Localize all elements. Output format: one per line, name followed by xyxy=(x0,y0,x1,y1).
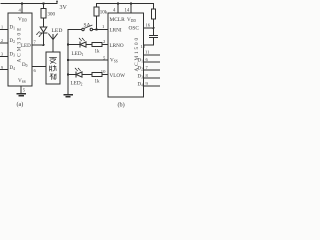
wire R4 to VLOW pin 10 xyxy=(102,74,108,76)
wire top supply rail (b) xyxy=(97,3,154,5)
LED1 xyxy=(68,44,80,46)
wire R3 to LRNO pin 2 xyxy=(102,44,108,46)
node LED2 branch junction xyxy=(67,73,69,75)
svg-text:D4: D4 xyxy=(138,83,144,88)
LED D5 indicator (a) xyxy=(40,27,47,32)
svg-text:VDD: VDD xyxy=(18,17,27,23)
svg-text:D4: D4 xyxy=(10,66,16,71)
wire pin 6 D0 output to transmitter xyxy=(32,66,46,68)
svg-text:LED: LED xyxy=(21,44,31,49)
transmitter box xyxy=(46,52,60,84)
svg-text:2: 2 xyxy=(1,38,3,43)
node LED1 branch junction xyxy=(67,43,69,45)
svg-text:LED1: LED1 xyxy=(72,51,84,57)
svg-text:VDD: VDD xyxy=(127,17,136,23)
node VSS branch junction xyxy=(67,59,69,61)
svg-text:D2: D2 xyxy=(10,39,16,44)
wire pin 11 xyxy=(144,54,161,56)
wire pin D2 (a) xyxy=(0,42,8,44)
svg-text:9: 9 xyxy=(1,65,3,70)
wire LED2 to R4 xyxy=(82,74,92,76)
svg-text:10: 10 xyxy=(101,69,106,74)
svg-text:18: 18 xyxy=(141,44,146,49)
resistor R2 10k xyxy=(96,4,98,8)
wire pin D1 (a) xyxy=(0,29,8,31)
wire VDD drop to IC1 pin 4 xyxy=(21,4,23,14)
svg-text:MCLR: MCLR xyxy=(110,17,126,23)
svg-text:1: 1 xyxy=(102,24,105,29)
svg-text:5: 5 xyxy=(23,88,26,93)
wire pin 5 VSS to ground (a) xyxy=(20,86,22,93)
svg-text:11: 11 xyxy=(145,50,150,55)
svg-text:LRNO: LRNO xyxy=(110,43,124,49)
svg-text:6: 6 xyxy=(146,57,149,62)
svg-text:D2: D2 xyxy=(138,67,144,72)
svg-text:VLOW: VLOW xyxy=(110,73,126,79)
svg-text:7: 7 xyxy=(34,40,37,45)
node rail pin4 junction (b) xyxy=(117,2,119,4)
resistor R3 1k xyxy=(92,42,102,46)
svg-text:2: 2 xyxy=(103,39,106,44)
node rail-R1 junction xyxy=(42,2,44,4)
svg-text:D3: D3 xyxy=(138,75,144,80)
svg-text:6: 6 xyxy=(34,68,37,73)
svg-text:D1: D1 xyxy=(138,59,144,64)
resistor R1 300 xyxy=(43,4,45,9)
svg-text:7: 7 xyxy=(146,65,149,70)
node OSC-RC junction xyxy=(153,27,155,29)
switch SA xyxy=(68,29,82,31)
svg-text:LED2: LED2 xyxy=(71,81,83,87)
wire OSC pin 16 xyxy=(144,27,154,29)
svg-text:1k: 1k xyxy=(95,80,101,85)
resistor R5 osc xyxy=(153,4,155,10)
svg-text:VSS: VSS xyxy=(18,78,26,84)
svg-text:D3: D3 xyxy=(10,53,16,58)
node rail-VDD junction (a) xyxy=(21,2,23,4)
wire MCLR drop pin 4 xyxy=(117,4,119,14)
svg-text:1: 1 xyxy=(1,25,3,30)
svg-text:(a): (a) xyxy=(17,101,24,108)
svg-text:D0: D0 xyxy=(22,63,28,68)
wire pin 18 xyxy=(144,44,154,46)
svg-text:16: 16 xyxy=(146,23,151,28)
svg-text:3: 3 xyxy=(1,52,3,57)
node rail pin14 junction (b) xyxy=(130,2,132,4)
wire pin D4 (a) xyxy=(0,69,8,71)
wire pin 8 D3 (b) xyxy=(144,77,161,79)
node LED stem junction xyxy=(43,44,45,46)
svg-text:8: 8 xyxy=(146,73,149,78)
wire pin 9 D4 (b) xyxy=(144,85,161,87)
svg-text:SA: SA xyxy=(84,23,91,29)
wire left ground rail (b) xyxy=(67,30,69,94)
wire pin 6 D1 (b) xyxy=(144,61,161,63)
svg-text:300: 300 xyxy=(48,13,56,18)
LED2 xyxy=(68,74,76,76)
svg-text:4: 4 xyxy=(19,8,22,13)
node LRNI junction xyxy=(95,28,97,30)
wire pin 7 D2 (b) xyxy=(144,69,161,71)
wire top supply rail (a) xyxy=(1,3,57,5)
wire LED1 to R3 xyxy=(86,44,92,46)
wire LRNI pin 1 xyxy=(93,29,108,31)
wire pin 7 LED output xyxy=(32,44,44,46)
op-amp U2 ACM1500 body xyxy=(108,13,144,97)
svg-text:LED: LED xyxy=(52,28,63,34)
resistor R4 1k xyxy=(92,72,102,76)
svg-text:D1: D1 xyxy=(10,26,16,31)
antenna xyxy=(49,34,58,52)
wire VDD drop pin 14 xyxy=(130,4,132,14)
op-amp U1 ACM330E body xyxy=(8,13,32,86)
wire pin D3 (a) xyxy=(0,56,8,58)
wire VSS pin 5 (b) xyxy=(68,59,108,61)
svg-text:(b): (b) xyxy=(118,102,125,109)
svg-text:OSC: OSC xyxy=(129,26,140,32)
ground (b) xyxy=(63,94,73,96)
svg-text:9: 9 xyxy=(146,81,149,86)
power arrow 3V (a) xyxy=(56,1,58,3)
svg-text:1k: 1k xyxy=(95,50,101,55)
svg-text:LRNI: LRNI xyxy=(110,28,122,34)
ground (a) xyxy=(17,93,27,95)
svg-text:3V: 3V xyxy=(60,5,68,11)
capacitor C1 osc xyxy=(153,28,155,35)
svg-text:VSS: VSS xyxy=(110,58,118,64)
svg-text:14: 14 xyxy=(125,9,130,14)
svg-text:10k: 10k xyxy=(100,11,108,16)
transmitter box text 发射机 xyxy=(50,58,57,80)
